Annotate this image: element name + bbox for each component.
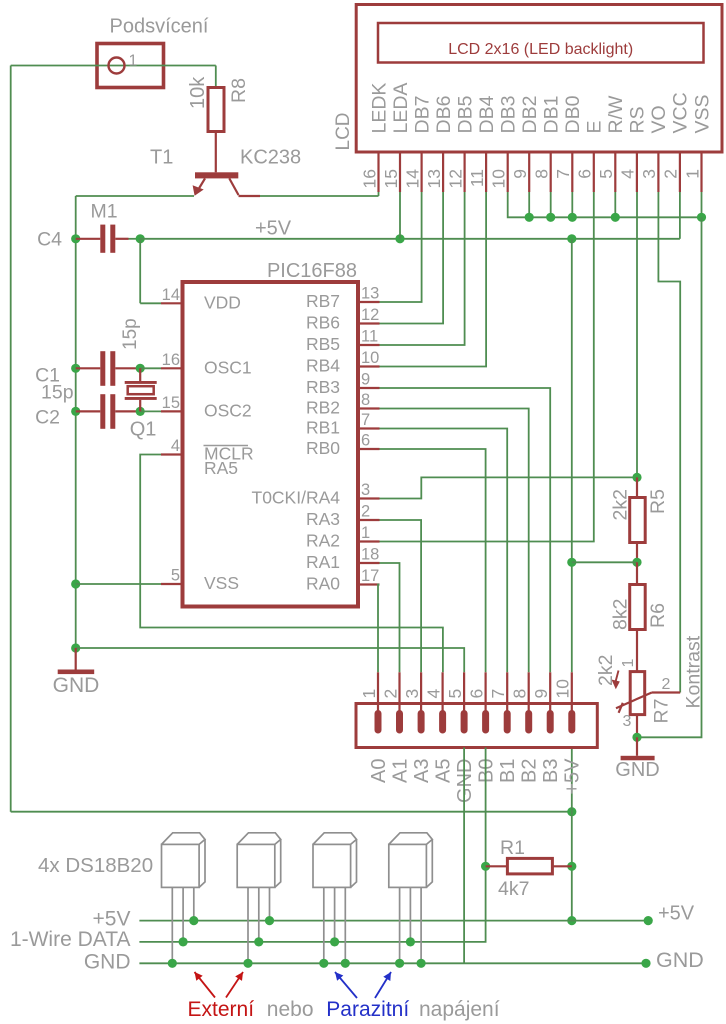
junction U3 GND (319, 959, 328, 968)
svg-text:Kontrast: Kontrast (683, 635, 705, 708)
wire +5V horizontal (140, 238, 680, 240)
connector pin 3 stub (420, 672, 422, 712)
svg-text:7: 7 (553, 169, 573, 179)
svg-text:napájení: napájení (419, 998, 500, 1021)
svg-text:R5: R5 (647, 489, 669, 514)
svg-text:LCD 2x16 (LED backlight): LCD 2x16 (LED backlight) (448, 41, 633, 58)
svg-text:VO: VO (648, 105, 670, 133)
wire R8 top (215, 66, 217, 88)
annotation blue arrow 2 (375, 972, 391, 998)
junction U3 VDD gnd (341, 959, 350, 968)
wire R5R6 node to spine (572, 561, 637, 563)
sensor U2 DS18B20 package (237, 833, 281, 888)
wire C4 right stub (115, 238, 128, 240)
svg-text:2: 2 (661, 169, 681, 179)
pin 5 stub left (161, 583, 183, 585)
wire R5 bottom stub (636, 543, 638, 563)
svg-text:DB1: DB1 (541, 96, 563, 134)
svg-text:R7: R7 (651, 699, 673, 724)
net DB7 to RB7 (380, 192, 422, 302)
sensor U3 leg VDD to GND parasite (344, 887, 346, 963)
net VO Kontrast (658, 192, 680, 693)
svg-text:+5V: +5V (658, 903, 695, 925)
svg-text:RA3: RA3 (306, 509, 340, 529)
svg-text:8: 8 (510, 689, 530, 699)
pin 9 stub right (358, 387, 380, 389)
svg-text:T1: T1 (150, 147, 173, 169)
junction U2 VDD (265, 916, 274, 925)
svg-text:LCD: LCD (333, 112, 354, 150)
svg-text:4k7: 4k7 (498, 878, 529, 900)
svg-text:RB3: RB3 (306, 377, 340, 397)
svg-text:15: 15 (162, 394, 180, 412)
svg-text:10: 10 (553, 679, 573, 699)
junction C4 / +5V (136, 234, 145, 243)
svg-text:1: 1 (682, 169, 702, 179)
connector pin 7 stub (506, 672, 508, 712)
svg-text:DB0: DB0 (562, 95, 584, 133)
sensor U4 DS18B20 package (389, 833, 433, 888)
wire OSC1 (140, 367, 161, 369)
connector pin 5 stub (463, 672, 465, 712)
svg-text:E: E (584, 120, 606, 133)
svg-text:8k2: 8k2 (609, 599, 631, 630)
svg-text:GND: GND (53, 674, 100, 697)
svg-text:4: 4 (618, 169, 638, 179)
svg-text:8: 8 (361, 391, 370, 409)
junction DB0 gnd (568, 213, 577, 222)
svg-text:9: 9 (510, 169, 530, 179)
annotation red arrow 1 (195, 972, 216, 998)
wire C1 left stub (76, 367, 101, 369)
wire OSC2 (140, 410, 161, 412)
junction C1/OSC1/crystal (136, 364, 145, 373)
pin 3 stub right (358, 497, 380, 499)
junction rail/GND line (71, 643, 80, 652)
net DB6 to RB6 (380, 192, 444, 324)
svg-text:16: 16 (162, 351, 180, 369)
junction rail/VSS (71, 579, 80, 588)
connector pin 10 pill (568, 710, 575, 734)
svg-text:13: 13 (361, 285, 379, 303)
junction spine/+5V rail (567, 916, 576, 925)
connector pin 7 pill (504, 710, 511, 734)
svg-text:2: 2 (380, 689, 400, 699)
pin 15 stub left (161, 410, 183, 412)
wire R8 to T1 base (215, 132, 217, 173)
sensor U2 leg VDD to +5V (269, 887, 271, 920)
svg-text:nebo: nebo (267, 998, 314, 1021)
wire R6 to R7 (636, 630, 638, 672)
net DB5 to RB5 (380, 192, 465, 345)
svg-text:14: 14 (402, 169, 422, 189)
net RB3 to connector B3 (380, 388, 551, 672)
svg-text:17: 17 (361, 567, 379, 585)
wire VDD branch (139, 239, 141, 303)
sensor U4 leg VDD to GND parasite (420, 887, 422, 963)
junction DB1 gnd (546, 213, 555, 222)
svg-text:9: 9 (531, 689, 551, 699)
potentiometer R7 pin2 wire (652, 691, 681, 693)
svg-text:A0: A0 (368, 759, 390, 783)
potentiometer R7 body (630, 672, 645, 715)
transistor T1 collector pin stub (239, 195, 261, 197)
pin 14 stub left (161, 302, 183, 304)
svg-text:6: 6 (361, 432, 370, 450)
LCD pin 13 stub (442, 152, 444, 192)
wire net backlight left vertical (10, 66, 12, 812)
svg-text:6: 6 (575, 169, 595, 179)
svg-text:C4: C4 (37, 229, 62, 251)
pin 1 stub right (358, 540, 380, 542)
net RB0 to connector B0 (380, 449, 486, 672)
svg-text:M1: M1 (91, 201, 118, 223)
svg-text:Parazitní: Parazitní (326, 998, 409, 1021)
svg-text:RB7: RB7 (306, 291, 340, 311)
svg-text:B2: B2 (519, 759, 541, 783)
net RA1 to connector A1 (380, 563, 400, 672)
wire net backlight horizontal (11, 65, 216, 67)
junction rail/C2 (71, 407, 80, 416)
svg-text:4: 4 (171, 437, 180, 455)
junction GND rail end (641, 959, 650, 968)
svg-text:11: 11 (361, 328, 378, 346)
svg-text:DB2: DB2 (519, 96, 541, 134)
pin 10 stub right (358, 365, 380, 367)
LCD pin 14 stub (421, 152, 423, 192)
svg-text:VDD: VDD (204, 292, 241, 312)
wire C2 right stub (115, 410, 140, 412)
IC U1 PIC16F88 box (183, 282, 359, 607)
sensor U3 DS18B20 package (313, 833, 357, 888)
pin 16 stub left (161, 367, 183, 369)
sensor U1 leg GND (171, 887, 173, 963)
net RS down to R5 node (636, 192, 638, 477)
svg-text:RA0: RA0 (306, 574, 340, 594)
svg-text:VSS: VSS (204, 573, 239, 593)
junction B0/R1 (481, 862, 490, 871)
svg-text:KC238: KC238 (240, 147, 301, 169)
resistor R8 body (208, 88, 224, 132)
svg-text:8: 8 (532, 169, 552, 179)
svg-text:2k2: 2k2 (609, 489, 631, 520)
wire GND line to connector pin5 (76, 648, 465, 672)
LCD pin 2 stub (679, 152, 681, 192)
connector pin 5 pill (461, 710, 468, 734)
capacitor C2 plates (100, 394, 105, 429)
sensor U4 leg DATA (409, 887, 411, 942)
svg-text:DB7: DB7 (411, 96, 433, 134)
annotation red arrow 2 (226, 972, 243, 998)
LCD pin 11 stub (485, 152, 487, 192)
svg-text:GND: GND (656, 948, 704, 972)
pin 12 stub right (358, 322, 380, 324)
connector pin 1 pill (375, 710, 382, 734)
net RA0 to connector A0 (378, 585, 380, 673)
resistor R5 body (630, 498, 646, 543)
junction U4 GND (395, 959, 404, 968)
svg-text:3: 3 (361, 481, 370, 499)
connector pin 3 pill (418, 710, 425, 734)
wire R1 right stub (552, 865, 571, 867)
potentiometer R7 wiper diagonal (616, 693, 652, 709)
sensor U3 leg GND (323, 887, 325, 963)
pin 6 stub right (358, 448, 380, 450)
LCD pin 10 stub (507, 152, 509, 192)
junction rail/C1 (71, 364, 80, 373)
annotation blue arrow 1 (335, 972, 357, 998)
svg-text:RB0: RB0 (306, 438, 340, 458)
svg-text:B1: B1 (497, 759, 519, 783)
wire emitter to left rail (76, 195, 194, 197)
connector pin 6 pill (482, 710, 489, 734)
svg-text:RB2: RB2 (306, 398, 340, 418)
connector pin 8 pill (525, 710, 532, 734)
net RA3 to connector A3 (380, 520, 422, 672)
transistor T1 emitter diagonal (197, 178, 206, 192)
pin 4 stub left (161, 453, 183, 455)
svg-text:Externí: Externí (188, 998, 255, 1021)
wire net backlight bottom horizontal to +5V spine (11, 811, 572, 813)
LCD pin 15 stub (399, 152, 401, 192)
svg-text:A3: A3 (411, 759, 433, 783)
net RB1 to connector B1 (380, 429, 508, 673)
svg-text:Podsvícení: Podsvícení (110, 16, 209, 38)
svg-text:2k2: 2k2 (595, 655, 617, 686)
net +5V rail (139, 920, 648, 922)
wire R1 left stub (486, 865, 508, 867)
pin 18 stub right (358, 562, 380, 564)
sensor U1 leg VDD to +5V (193, 887, 195, 920)
svg-text:T0CKI/RA4: T0CKI/RA4 (252, 488, 341, 508)
potentiometer R7 wiper tail tick (619, 703, 623, 713)
transistor T1 base bar (195, 172, 238, 178)
wire LCD ground down right edge (637, 217, 702, 737)
svg-text:RA5: RA5 (204, 458, 238, 478)
wire R5 top stub (636, 477, 638, 497)
net E to RA2 (380, 192, 594, 542)
svg-text:5: 5 (171, 567, 180, 585)
LCD pin 9 stub (528, 152, 530, 192)
sensor U2 leg GND (247, 887, 249, 963)
svg-text:A5: A5 (432, 759, 454, 783)
LCD pin 7 stub (571, 152, 573, 192)
junction +5V / spine (567, 234, 576, 243)
sensor U1 leg DATA (182, 887, 184, 942)
svg-text:13: 13 (424, 169, 444, 188)
wire C2 left stub (76, 410, 101, 412)
svg-text:15p: 15p (41, 382, 74, 404)
LCD pin 12 stub (464, 152, 466, 192)
net RA4 to RS/R5 node (380, 477, 638, 498)
svg-text:R8: R8 (228, 78, 250, 103)
svg-text:14: 14 (162, 286, 180, 304)
junction U1 VDD (189, 916, 198, 925)
svg-text:10: 10 (361, 349, 379, 367)
junction DB2 gnd (525, 213, 534, 222)
svg-text:VSS: VSS (691, 94, 713, 133)
connector pin 9 pill (547, 710, 554, 734)
junction spine/R5-R6 node (567, 558, 576, 567)
net ground of LCD: DB3 DB2 DB1 DB0 R/W VSS (508, 192, 702, 217)
LCD pin 16 stub (377, 152, 379, 192)
svg-text:10k: 10k (187, 76, 209, 109)
svg-text:GND: GND (615, 759, 659, 781)
svg-text:10: 10 (489, 169, 509, 189)
svg-text:OSC2: OSC2 (204, 400, 252, 420)
connector pin 1 stub (377, 672, 379, 712)
junction U1 GND (168, 959, 177, 968)
sensor U3 leg DATA (334, 887, 336, 942)
connector pin 4 stub (442, 672, 444, 712)
net LEDA to +5V (399, 192, 401, 239)
junction R5/R6/+5V (632, 558, 641, 567)
crystal Q1 (139, 368, 141, 381)
resistor R6 body (630, 585, 646, 630)
junction left rail / C4 (71, 234, 80, 243)
potentiometer R7 adjust arrow (615, 671, 618, 684)
pin 2 stub right (358, 519, 380, 521)
svg-text:DB4: DB4 (476, 95, 498, 133)
connector pin 10 stub (571, 672, 573, 712)
svg-text:RB1: RB1 (306, 418, 340, 438)
svg-text:GND: GND (84, 951, 131, 974)
svg-text:1: 1 (359, 689, 379, 699)
svg-text:RA2: RA2 (306, 531, 340, 551)
svg-text:RB6: RB6 (306, 313, 340, 333)
wire C4 left stub (76, 238, 101, 240)
pin 11 stub right (358, 344, 380, 346)
svg-text:R6: R6 (647, 603, 669, 628)
svg-text:LEDK: LEDK (368, 83, 390, 134)
LCD module inner box (378, 23, 704, 63)
svg-text:1: 1 (129, 53, 138, 70)
wire MCLR to connector A5 (140, 455, 443, 673)
svg-text:12: 12 (361, 306, 379, 324)
wire R7 bottom (636, 715, 638, 738)
LCD pin 1 stub (700, 152, 702, 192)
svg-text:2: 2 (361, 503, 370, 521)
junction U3 DATA (330, 937, 339, 946)
svg-text:4x DS18B20: 4x DS18B20 (38, 854, 153, 877)
sensor U1 DS18B20 package (162, 833, 206, 888)
junction U4 VDD gnd (417, 959, 426, 968)
svg-text:11: 11 (467, 169, 487, 187)
junction U1 DATA (179, 937, 188, 946)
svg-text:1: 1 (620, 659, 637, 668)
LCD module outer box (356, 5, 722, 153)
junction +5V rail end (644, 916, 653, 925)
pin 17 stub right (358, 583, 380, 585)
wire collector to LCD pin16 LEDK (260, 195, 379, 197)
svg-text:R1: R1 (500, 837, 525, 859)
junction C2/OSC2/crystal (136, 407, 145, 416)
LCD pin 3 stub (657, 152, 659, 192)
svg-text:+5V: +5V (562, 758, 584, 795)
junction R/W gnd (611, 213, 620, 222)
junction U4 DATA (406, 937, 415, 946)
pin 1 circle of backlight connector (109, 58, 125, 74)
svg-text:+5V: +5V (255, 218, 292, 240)
capacitor C4 plates (100, 225, 105, 253)
connector pin 2 pill (396, 710, 403, 734)
svg-text:7: 7 (361, 411, 370, 429)
svg-text:3: 3 (639, 169, 659, 179)
junction U2 DATA (254, 937, 263, 946)
svg-text:5: 5 (445, 689, 465, 699)
svg-text:DB5: DB5 (454, 95, 476, 133)
LCD pin 5 stub (614, 152, 616, 192)
svg-text:R/W: R/W (605, 95, 627, 134)
net DB4 to RB4 (380, 192, 487, 367)
svg-text:15p: 15p (120, 318, 141, 350)
svg-text:4: 4 (423, 689, 443, 699)
sensor U4 leg GND (399, 887, 401, 963)
wire VCC pin2 branch up (679, 192, 681, 239)
svg-text:9: 9 (361, 371, 370, 389)
wire GND below connector (463, 748, 465, 964)
svg-text:RB4: RB4 (306, 356, 340, 376)
svg-text:Q1: Q1 (130, 419, 157, 441)
connector SV-backlight box (97, 44, 164, 88)
svg-text:OSC1: OSC1 (204, 357, 252, 377)
LCD pin 8 stub (550, 152, 552, 192)
wire B0 1-wire data below connector (139, 748, 485, 942)
resistor R1 body (507, 858, 552, 874)
connector SV1 box (356, 704, 597, 748)
junction VSS gnd (697, 213, 706, 222)
svg-text:VCC: VCC (670, 92, 692, 133)
svg-text:7: 7 (488, 689, 508, 699)
pin 7 stub right (358, 427, 380, 429)
svg-text:B3: B3 (540, 759, 562, 783)
connector pin 9 stub (549, 672, 551, 712)
sensor U2 leg DATA (258, 887, 260, 942)
svg-text:16: 16 (359, 169, 379, 188)
svg-text:12: 12 (445, 169, 465, 188)
junction R7/ground (632, 733, 641, 742)
svg-text:3: 3 (402, 689, 422, 699)
svg-text:RS: RS (627, 106, 649, 133)
ground symbol left (75, 648, 77, 670)
svg-text:3: 3 (623, 713, 632, 730)
transistor T1 emitter arrow (193, 185, 204, 196)
svg-text:RB5: RB5 (306, 334, 340, 354)
svg-text:2: 2 (662, 676, 671, 693)
svg-text:DB6: DB6 (433, 96, 455, 134)
svg-text:1-Wire DATA: 1-Wire DATA (10, 928, 131, 951)
wire VSS (76, 583, 161, 585)
transistor T1 collector diagonal (229, 178, 238, 195)
net RB2 to connector B2 (380, 409, 529, 673)
svg-text:5: 5 (596, 169, 616, 179)
svg-text:6: 6 (466, 689, 486, 699)
svg-text:18: 18 (361, 546, 379, 564)
junction RS/RA4/R5 (632, 473, 641, 482)
junction +5V / LEDA (395, 234, 404, 243)
pin 13 stub right (358, 301, 380, 303)
svg-text:PIC16F88: PIC16F88 (267, 260, 357, 282)
connector pin 4 pill (439, 710, 446, 734)
svg-text:1: 1 (361, 524, 370, 542)
connector pin 6 stub (485, 672, 487, 712)
wire C1 right stub (115, 367, 140, 369)
svg-text:C2: C2 (35, 407, 60, 429)
net GND rail (139, 962, 646, 964)
junction backlight/+5V spine (567, 807, 576, 816)
junction spine/R1 (567, 862, 576, 871)
LCD pin 4 stub (636, 152, 638, 192)
